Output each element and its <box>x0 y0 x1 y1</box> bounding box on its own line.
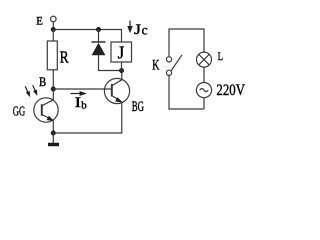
relay coil J <box>111 42 132 62</box>
svg-text:J: J <box>134 22 141 38</box>
lamp L <box>197 52 212 67</box>
junction diode relay collector <box>119 68 124 73</box>
ground <box>48 133 59 146</box>
wire resistor to node B <box>52 70 54 89</box>
svg-text:BG: BG <box>132 98 144 115</box>
svg-text:I: I <box>75 95 81 111</box>
svg-text:J: J <box>118 42 125 62</box>
wire top rail E to relay J <box>53 30 121 43</box>
transistor BG <box>104 78 129 103</box>
phototransistor GG <box>34 98 58 122</box>
arrow Ib current <box>71 91 87 95</box>
wire lamp to source <box>203 67 205 82</box>
wire E terminal to junction <box>52 22 54 30</box>
junction at E node <box>51 27 56 32</box>
wire junction down to resistor <box>52 30 54 42</box>
svg-text:GG: GG <box>13 105 25 120</box>
wire BG collector to junction <box>121 71 123 80</box>
light arrow 1 into GG <box>25 86 30 97</box>
svg-text:B: B <box>39 74 46 89</box>
junction at ground node <box>51 131 56 136</box>
wire B down to phototransistor GG collector <box>52 89 54 100</box>
resistor R <box>47 41 57 70</box>
wire top rail to diode cathode <box>98 30 100 43</box>
svg-text:220V: 220V <box>216 82 245 99</box>
svg-text:c: c <box>142 23 148 38</box>
wire GG emitter to ground junction <box>52 121 54 133</box>
arrow Jc current <box>128 21 133 33</box>
diode VD flyback <box>92 42 106 55</box>
svg-text:E: E <box>36 15 43 27</box>
svg-text:R: R <box>60 47 69 66</box>
light arrow 2 into GG <box>33 85 37 95</box>
switch K <box>166 55 182 76</box>
junction top rail to diode <box>96 27 101 32</box>
svg-text:L: L <box>218 51 223 63</box>
wire diode anode to junction <box>99 55 122 71</box>
wire base B to BG <box>53 88 111 90</box>
junction node B <box>51 87 56 92</box>
wire bottom rail ground to BG emitter <box>53 102 122 133</box>
wire right loop top rail <box>169 29 204 57</box>
node E terminal <box>51 16 57 22</box>
wire relay J to junction <box>121 62 123 71</box>
AC source 220V <box>196 83 211 98</box>
svg-text:b: b <box>81 100 87 112</box>
svg-text:K: K <box>152 57 159 74</box>
wire switch to bottom rail <box>169 75 204 109</box>
wire source to bottom rail <box>203 98 205 109</box>
